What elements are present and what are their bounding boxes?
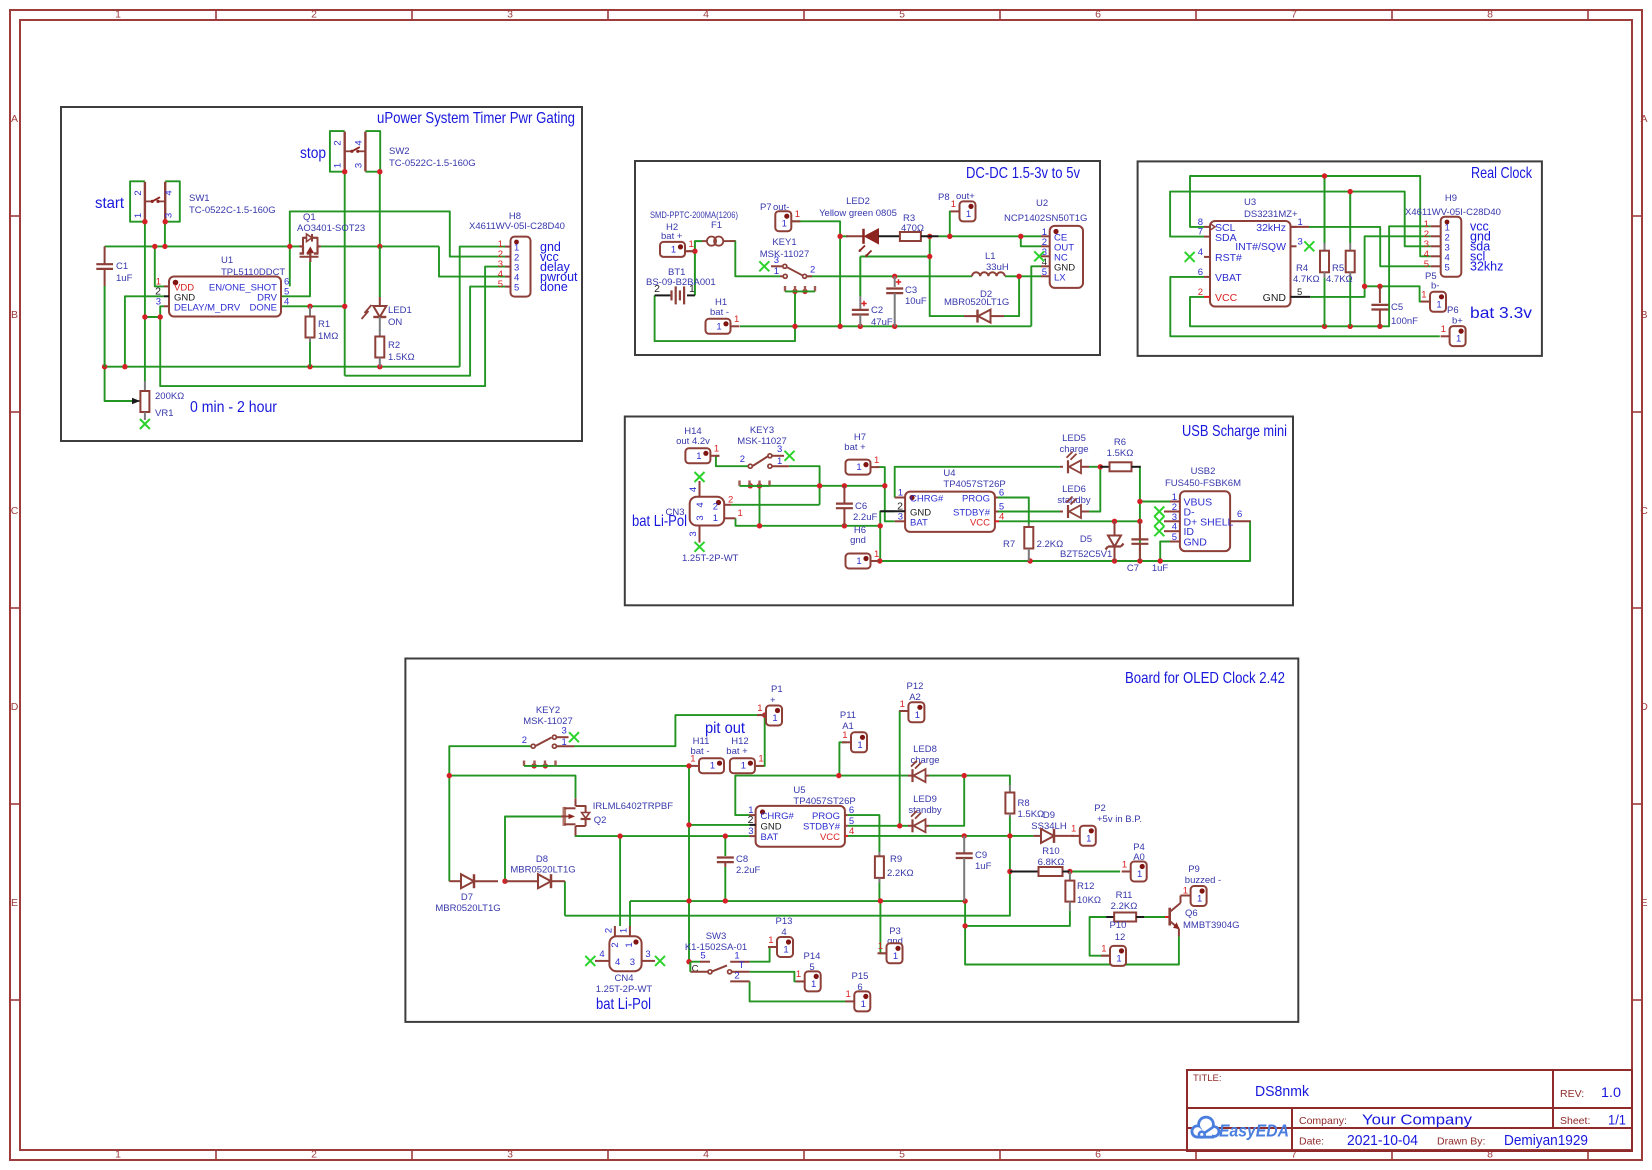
no-connect USB2 D+ <box>1154 516 1164 526</box>
svg-text:D7: D7 <box>461 892 473 903</box>
svg-text:1: 1 <box>856 556 861 567</box>
svg-text:2: 2 <box>713 502 718 513</box>
block frame: Real Clock <box>1138 161 1542 356</box>
svg-text:CHRG#: CHRG# <box>761 811 795 822</box>
svg-text:R1: R1 <box>318 319 330 330</box>
svg-text:1: 1 <box>671 244 676 255</box>
wire CN3 pin2 <box>731 504 820 506</box>
svg-text:INT#/SQW: INT#/SQW <box>1235 241 1286 253</box>
svg-text:b-: b- <box>1431 281 1439 292</box>
svg-text:2: 2 <box>810 265 815 276</box>
wire Q2 drain / BAT line <box>576 835 750 837</box>
svg-text:B: B <box>11 309 18 321</box>
svg-text:1: 1 <box>716 321 721 332</box>
title block <box>1187 1070 1632 1151</box>
svg-text:VBAT: VBAT <box>1215 272 1242 284</box>
svg-text:P7: P7 <box>760 202 772 213</box>
svg-text:1: 1 <box>741 761 746 772</box>
wire gnd rail <box>105 366 460 368</box>
wire gnd drop right <box>965 901 1179 964</box>
wire LED6 line <box>998 511 1061 513</box>
svg-text:AO3401-SOT23: AO3401-SOT23 <box>297 223 365 234</box>
svg-text:BZT52C5V1: BZT52C5V1 <box>1060 549 1112 560</box>
wire LED2 anode <box>840 235 848 237</box>
svg-text:U5: U5 <box>793 785 805 796</box>
svg-text:CHRG#: CHRG# <box>910 494 944 505</box>
svg-text:L1: L1 <box>985 251 996 262</box>
wire BAT riser <box>885 486 895 522</box>
svg-text:2.2uF: 2.2uF <box>736 865 760 876</box>
block frame: USB Scharge mini <box>625 417 1293 606</box>
svg-text:Board for OLED Clock 2.42: Board for OLED Clock 2.42 <box>1125 670 1285 687</box>
svg-text:Real Clock: Real Clock <box>1471 165 1533 182</box>
wire SW1 pin1 drop <box>144 222 146 317</box>
svg-text:1: 1 <box>874 455 879 466</box>
svg-text:3: 3 <box>164 213 175 218</box>
svg-text:1: 1 <box>1436 299 1441 310</box>
svg-text:C: C <box>1640 505 1648 517</box>
wire CN3 pin1 / gnd line <box>736 518 881 526</box>
svg-text:3: 3 <box>1298 236 1303 247</box>
svg-text:GND: GND <box>1263 292 1287 304</box>
wire P3 drop <box>880 901 886 953</box>
svg-text:3: 3 <box>156 297 161 308</box>
svg-text:bat -: bat - <box>710 307 729 318</box>
svg-text:6: 6 <box>1095 9 1101 21</box>
svg-text:C: C <box>692 964 699 975</box>
svg-text:1: 1 <box>777 456 782 467</box>
svg-text:5: 5 <box>1042 267 1047 278</box>
wire PROG to R9 <box>848 815 879 852</box>
wire b- net <box>1365 286 1430 301</box>
svg-text:C1: C1 <box>116 261 128 272</box>
svg-text:1uF: 1uF <box>1152 563 1169 574</box>
svg-text:IRLML6402TRPBF: IRLML6402TRPBF <box>593 801 673 812</box>
svg-text:1: 1 <box>1137 869 1142 880</box>
svg-text:R9: R9 <box>890 854 902 865</box>
svg-text:3: 3 <box>688 531 699 536</box>
wire U1 DELAY elbow <box>145 306 164 317</box>
svg-text:2.2KΩ: 2.2KΩ <box>1111 901 1138 912</box>
svg-text:Your Company: Your Company <box>1362 1112 1473 1129</box>
no-connect U3 RST# <box>1185 252 1195 262</box>
svg-text:NCP1402SN50T1G: NCP1402SN50T1G <box>1004 213 1087 224</box>
svg-text:BAT: BAT <box>761 832 779 843</box>
wire SW2 pin3 drop <box>379 172 381 247</box>
svg-text:LED8: LED8 <box>913 744 937 755</box>
wire H14 to KEY3 <box>716 456 748 466</box>
svg-text:C7: C7 <box>1127 563 1139 574</box>
svg-text:1/1: 1/1 <box>1608 1112 1626 1128</box>
svg-text:12: 12 <box>1115 932 1126 943</box>
svg-text:U2: U2 <box>1036 198 1048 209</box>
wire D2 to LX <box>1004 276 1019 316</box>
svg-text:Q1: Q1 <box>303 212 316 223</box>
svg-text:7: 7 <box>1198 227 1203 238</box>
svg-text:start: start <box>95 195 125 212</box>
svg-text:4: 4 <box>703 1149 709 1161</box>
wire H7 elbow <box>876 467 885 486</box>
svg-text:3: 3 <box>645 949 650 960</box>
svg-text:1uF: 1uF <box>975 861 992 872</box>
svg-text:Drawn By:: Drawn By: <box>1437 1136 1485 1148</box>
svg-text:4: 4 <box>164 190 175 195</box>
svg-text:32kHz: 32kHz <box>1256 222 1286 234</box>
svg-text:+5v in B.P.: +5v in B.P. <box>1097 814 1142 825</box>
svg-text:5: 5 <box>498 279 503 290</box>
svg-text:1: 1 <box>811 979 816 990</box>
svg-text:1.25T-2P-WT: 1.25T-2P-WT <box>596 984 653 995</box>
wire out+ rail <box>939 235 1042 237</box>
svg-text:A: A <box>11 113 18 125</box>
svg-text:Sheet:: Sheet: <box>1560 1115 1590 1127</box>
svg-text:MBR0520LT1G: MBR0520LT1G <box>510 865 575 876</box>
svg-text:RST#: RST# <box>1215 252 1242 264</box>
svg-text:bat 3.3v: bat 3.3v <box>1470 305 1532 322</box>
svg-text:bat Li-Pol: bat Li-Pol <box>596 996 651 1013</box>
svg-text:47uF: 47uF <box>871 317 893 328</box>
svg-text:1.25T-2P-WT: 1.25T-2P-WT <box>682 553 739 564</box>
junction dots block2 <box>692 249 697 254</box>
svg-text:4: 4 <box>688 487 699 492</box>
wire SW3 pin1 to P13 <box>750 947 777 962</box>
wire VCC net <box>1190 226 1431 326</box>
wire SW1 pin3 drop <box>164 222 166 247</box>
wire LX <box>1005 275 1041 277</box>
svg-text:LED1: LED1 <box>388 305 412 316</box>
wire CHRG riser <box>895 467 1060 498</box>
no-connect VR1 <box>140 419 150 429</box>
svg-text:3: 3 <box>898 511 903 522</box>
svg-text:STDBY#: STDBY# <box>803 822 841 833</box>
wire SDA net <box>1170 192 1431 247</box>
switch SW1 <box>130 181 145 221</box>
svg-text:1: 1 <box>738 508 743 519</box>
wire LED6 riser <box>1089 467 1100 512</box>
block frame: DC-DC 1.5-3v to 5v <box>635 161 1100 355</box>
svg-text:DS8nmk: DS8nmk <box>1255 1083 1309 1100</box>
svg-text:4: 4 <box>849 826 854 837</box>
resistor R4 4.7K <box>1324 243 1326 251</box>
svg-text:1: 1 <box>796 969 801 980</box>
svg-text:P11: P11 <box>840 710 856 721</box>
svg-text:FUS450-FSBK6M: FUS450-FSBK6M <box>1165 478 1241 489</box>
svg-text:1: 1 <box>893 951 898 962</box>
svg-text:3: 3 <box>695 515 706 520</box>
svg-text:1: 1 <box>795 209 800 220</box>
capacitor C2 47uF <box>859 296 861 310</box>
block frame: uPower System Timer Pwr Gating <box>61 107 582 441</box>
wire U1 GND path <box>125 296 164 366</box>
no-connect USB2 D- <box>1154 507 1164 517</box>
svg-text:100nF: 100nF <box>1391 316 1418 327</box>
svg-text:3: 3 <box>507 1149 513 1161</box>
svg-text:200KΩ: 200KΩ <box>155 391 184 402</box>
svg-text:U3: U3 <box>1244 197 1256 208</box>
svg-text:8: 8 <box>1487 9 1493 21</box>
svg-text:10uF: 10uF <box>905 296 927 307</box>
svg-text:2: 2 <box>522 735 527 746</box>
wire F1 to KEY1 <box>730 241 780 276</box>
svg-text:SW1: SW1 <box>189 193 210 204</box>
wire vcc-R10 vertical <box>565 836 1010 916</box>
wire KEY3 bracket drop <box>759 486 761 526</box>
svg-text:C: C <box>11 505 19 517</box>
svg-text:5: 5 <box>899 9 905 21</box>
wire BAT to CN4 pin2 <box>619 836 621 926</box>
wire R11 to Q6 <box>1144 916 1165 918</box>
svg-text:E: E <box>1640 897 1647 909</box>
wire P8 drop <box>949 211 952 236</box>
svg-text:P15: P15 <box>852 971 869 982</box>
svg-text:1: 1 <box>1441 324 1446 335</box>
wire P12 drop <box>900 711 902 826</box>
svg-text:1: 1 <box>772 713 777 724</box>
svg-text:2.2KΩ: 2.2KΩ <box>887 868 914 879</box>
svg-text:GND: GND <box>1184 537 1208 549</box>
svg-text:MMBT3904G: MMBT3904G <box>1183 920 1240 931</box>
svg-text:TITLE:: TITLE: <box>1193 1073 1222 1084</box>
wire 32kHz net <box>1309 227 1431 266</box>
svg-text:5: 5 <box>700 951 705 962</box>
svg-text:LED9: LED9 <box>913 794 937 805</box>
wire DRV net <box>281 262 310 296</box>
svg-text:SDA: SDA <box>1215 232 1237 244</box>
svg-text:P8: P8 <box>938 192 950 203</box>
wire Q2 source feed <box>449 776 575 799</box>
wire U4 GND path <box>880 511 895 561</box>
svg-text:TP4057ST26P: TP4057ST26P <box>943 479 1005 490</box>
svg-text:1: 1 <box>562 737 567 748</box>
svg-text:3: 3 <box>774 255 779 266</box>
svg-text:1: 1 <box>861 999 866 1010</box>
svg-text:DELAY/M_DRV: DELAY/M_DRV <box>174 303 241 314</box>
LED LED1 <box>379 246 381 297</box>
wire VBUS stub <box>1140 501 1170 503</box>
svg-text:1: 1 <box>782 219 787 230</box>
wire LED9 to riser <box>929 776 964 826</box>
svg-text:out 4.2v: out 4.2v <box>676 436 710 447</box>
svg-text:pit out: pit out <box>705 720 746 737</box>
svg-text:4: 4 <box>703 9 709 21</box>
svg-text:1uF: 1uF <box>116 273 133 284</box>
svg-text:U4: U4 <box>943 468 955 479</box>
svg-text:4.7KΩ: 4.7KΩ <box>1293 274 1320 285</box>
svg-text:C9: C9 <box>975 850 987 861</box>
wire LED2 gnd drop <box>839 236 841 326</box>
wire CHRG line <box>735 776 839 816</box>
resistor R8 1.5K <box>1009 785 1011 793</box>
wire PROG to R7 <box>998 498 1029 525</box>
svg-text:5: 5 <box>899 1149 905 1161</box>
svg-text:2: 2 <box>740 454 745 465</box>
svg-text:2.2uF: 2.2uF <box>853 512 877 523</box>
svg-text:2: 2 <box>1198 287 1203 298</box>
svg-text:1: 1 <box>696 451 701 462</box>
svg-text:3: 3 <box>507 9 513 21</box>
svg-text:T: T <box>739 960 745 971</box>
svg-text:32khz: 32khz <box>1470 260 1503 274</box>
svg-text:C8: C8 <box>736 854 748 865</box>
svg-text:5: 5 <box>1445 262 1450 273</box>
svg-text:1: 1 <box>714 444 719 455</box>
svg-text:+: + <box>770 695 776 706</box>
wire P11 drop <box>839 742 846 775</box>
wire GND net <box>1310 236 1431 297</box>
svg-text:P14: P14 <box>804 951 821 962</box>
wire R4 top <box>1324 176 1326 243</box>
svg-text:1: 1 <box>757 703 762 714</box>
svg-text:1: 1 <box>333 163 344 168</box>
svg-text:R12: R12 <box>1077 881 1094 892</box>
svg-text:1: 1 <box>951 199 956 210</box>
wire Q2 gate to diodes <box>505 817 561 882</box>
wire SHELL drop <box>1160 521 1251 561</box>
wire KEY3 to bat+ rail <box>789 466 820 505</box>
svg-text:charge: charge <box>1059 444 1088 455</box>
svg-text:2: 2 <box>610 942 621 947</box>
wire C8 bottom <box>724 867 726 901</box>
wire U2 GND drop <box>1031 266 1041 326</box>
svg-text:Company:: Company: <box>1299 1115 1347 1127</box>
capacitor C7 1uF <box>1139 521 1141 538</box>
switch KEY1 frame pins <box>784 286 786 291</box>
svg-text:Q2: Q2 <box>594 815 607 826</box>
no-connect U2 pin3 <box>1034 251 1044 261</box>
svg-text:E: E <box>11 897 18 909</box>
svg-text:1: 1 <box>874 549 879 560</box>
svg-text:1: 1 <box>783 945 788 956</box>
svg-text:1: 1 <box>1101 944 1106 955</box>
svg-text:LED5: LED5 <box>1062 433 1086 444</box>
svg-text:U1: U1 <box>221 255 233 266</box>
svg-text:6: 6 <box>1198 267 1203 278</box>
svg-text:1: 1 <box>966 209 971 220</box>
svg-text:P12: P12 <box>907 681 924 692</box>
svg-text:Q6: Q6 <box>1185 908 1198 919</box>
svg-text:LED6: LED6 <box>1062 484 1086 495</box>
svg-text:6: 6 <box>999 488 1004 499</box>
svg-text:1: 1 <box>734 314 739 325</box>
svg-text:R2: R2 <box>388 340 400 351</box>
svg-text:REV:: REV: <box>1560 1088 1584 1100</box>
wire KEY1 out to L1 <box>807 275 972 277</box>
resistor R2 1.5K <box>379 335 381 338</box>
svg-text:1: 1 <box>624 942 635 947</box>
svg-text:LX: LX <box>1054 273 1066 284</box>
svg-text:USB2: USB2 <box>1191 466 1216 477</box>
svg-text:1: 1 <box>1086 833 1091 844</box>
svg-text:bat +: bat + <box>844 442 866 453</box>
svg-text:1.5KΩ: 1.5KΩ <box>1018 809 1045 820</box>
svg-text:1: 1 <box>1421 289 1426 300</box>
svg-text:D: D <box>11 701 19 713</box>
svg-text:4: 4 <box>999 511 1004 522</box>
svg-text:3: 3 <box>748 826 753 837</box>
svg-text:DC-DC 1.5-3v to 5v: DC-DC 1.5-3v to 5v <box>966 165 1080 182</box>
svg-text:2021-10-04: 2021-10-04 <box>1347 1132 1418 1149</box>
svg-text:1: 1 <box>758 754 763 765</box>
wire R9 bottom <box>878 878 880 901</box>
capacitor C9 1uF <box>963 836 965 853</box>
svg-text:1: 1 <box>690 754 695 765</box>
svg-text:3: 3 <box>630 957 635 968</box>
svg-text:1: 1 <box>857 740 862 751</box>
svg-text:P6: P6 <box>1447 305 1459 316</box>
svg-text:1: 1 <box>1183 886 1188 897</box>
wire delay net to H8 pin3 <box>160 267 505 387</box>
svg-text:X4611WV-05I-C28D40: X4611WV-05I-C28D40 <box>469 221 565 232</box>
svg-text:SW3: SW3 <box>706 931 727 942</box>
svg-text:2: 2 <box>311 9 317 21</box>
wire LED9 line <box>852 825 909 827</box>
wire R6 to VBUS <box>1139 467 1142 561</box>
wire D8 elbow <box>564 881 566 916</box>
wire P7 to LED2 <box>791 221 840 236</box>
svg-text:2: 2 <box>311 1149 317 1161</box>
svg-text:1: 1 <box>1071 824 1076 835</box>
wire gnd rail block2 <box>740 325 1031 327</box>
wire out+ down to D2 <box>930 257 964 317</box>
svg-text:3: 3 <box>562 726 567 737</box>
wire left rail down to D7 <box>448 776 450 882</box>
svg-text:1: 1 <box>133 213 144 218</box>
svg-text:done: done <box>540 280 568 294</box>
wire SW3 pin2 to P15 <box>750 981 846 1001</box>
wire vcc rail <box>105 245 300 247</box>
svg-text:5: 5 <box>1172 532 1177 543</box>
svg-text:1: 1 <box>774 266 779 277</box>
svg-text:D9: D9 <box>1043 810 1055 821</box>
svg-text:F1: F1 <box>711 220 722 231</box>
svg-text:1MΩ: 1MΩ <box>318 331 338 342</box>
svg-text:1: 1 <box>710 761 715 772</box>
resistor R9 2.2K <box>878 852 880 856</box>
svg-text:1: 1 <box>768 935 773 946</box>
resistor R5 4.7K <box>1349 243 1351 251</box>
no-connect U3 INT <box>1304 241 1314 251</box>
resistor R7 2.2K <box>1028 524 1030 527</box>
wire bat+ rail <box>750 485 885 487</box>
svg-text:H9: H9 <box>1445 193 1457 204</box>
wire KEY1 bracket to gnd <box>794 291 796 326</box>
wire SW3 pin5 feed <box>689 961 700 963</box>
svg-text:VR1: VR1 <box>155 408 173 419</box>
wire U1 VDD elbow <box>155 246 164 286</box>
svg-text:DONE: DONE <box>250 303 277 314</box>
svg-text:1: 1 <box>713 513 718 524</box>
block frame: Board for OLED Clock 2.42 <box>405 659 1298 1022</box>
svg-text:4: 4 <box>615 957 620 968</box>
svg-text:C2: C2 <box>871 305 883 316</box>
wire R10 line <box>1010 871 1120 873</box>
svg-text:b+: b+ <box>1452 316 1463 327</box>
svg-text:Yellow green 0805: Yellow green 0805 <box>819 208 897 219</box>
svg-text:2: 2 <box>748 814 754 826</box>
svg-text:MBR0520LT1G: MBR0520LT1G <box>435 903 500 914</box>
svg-text:LED2: LED2 <box>846 196 870 207</box>
capacitor C6 2.2uF <box>843 486 845 503</box>
svg-text:1: 1 <box>1116 953 1121 964</box>
junction dots block3 <box>1322 173 1327 178</box>
svg-text:P10: P10 <box>1110 920 1127 931</box>
svg-text:SS34LH: SS34LH <box>1031 821 1067 832</box>
wire SW2 pin1 drop <box>344 172 346 376</box>
wire KEY2 pin1 to P1 <box>574 715 766 746</box>
svg-text:KEY3: KEY3 <box>750 425 774 436</box>
no-connect USB2 ID <box>1154 526 1164 536</box>
svg-text:D: D <box>1640 701 1648 713</box>
